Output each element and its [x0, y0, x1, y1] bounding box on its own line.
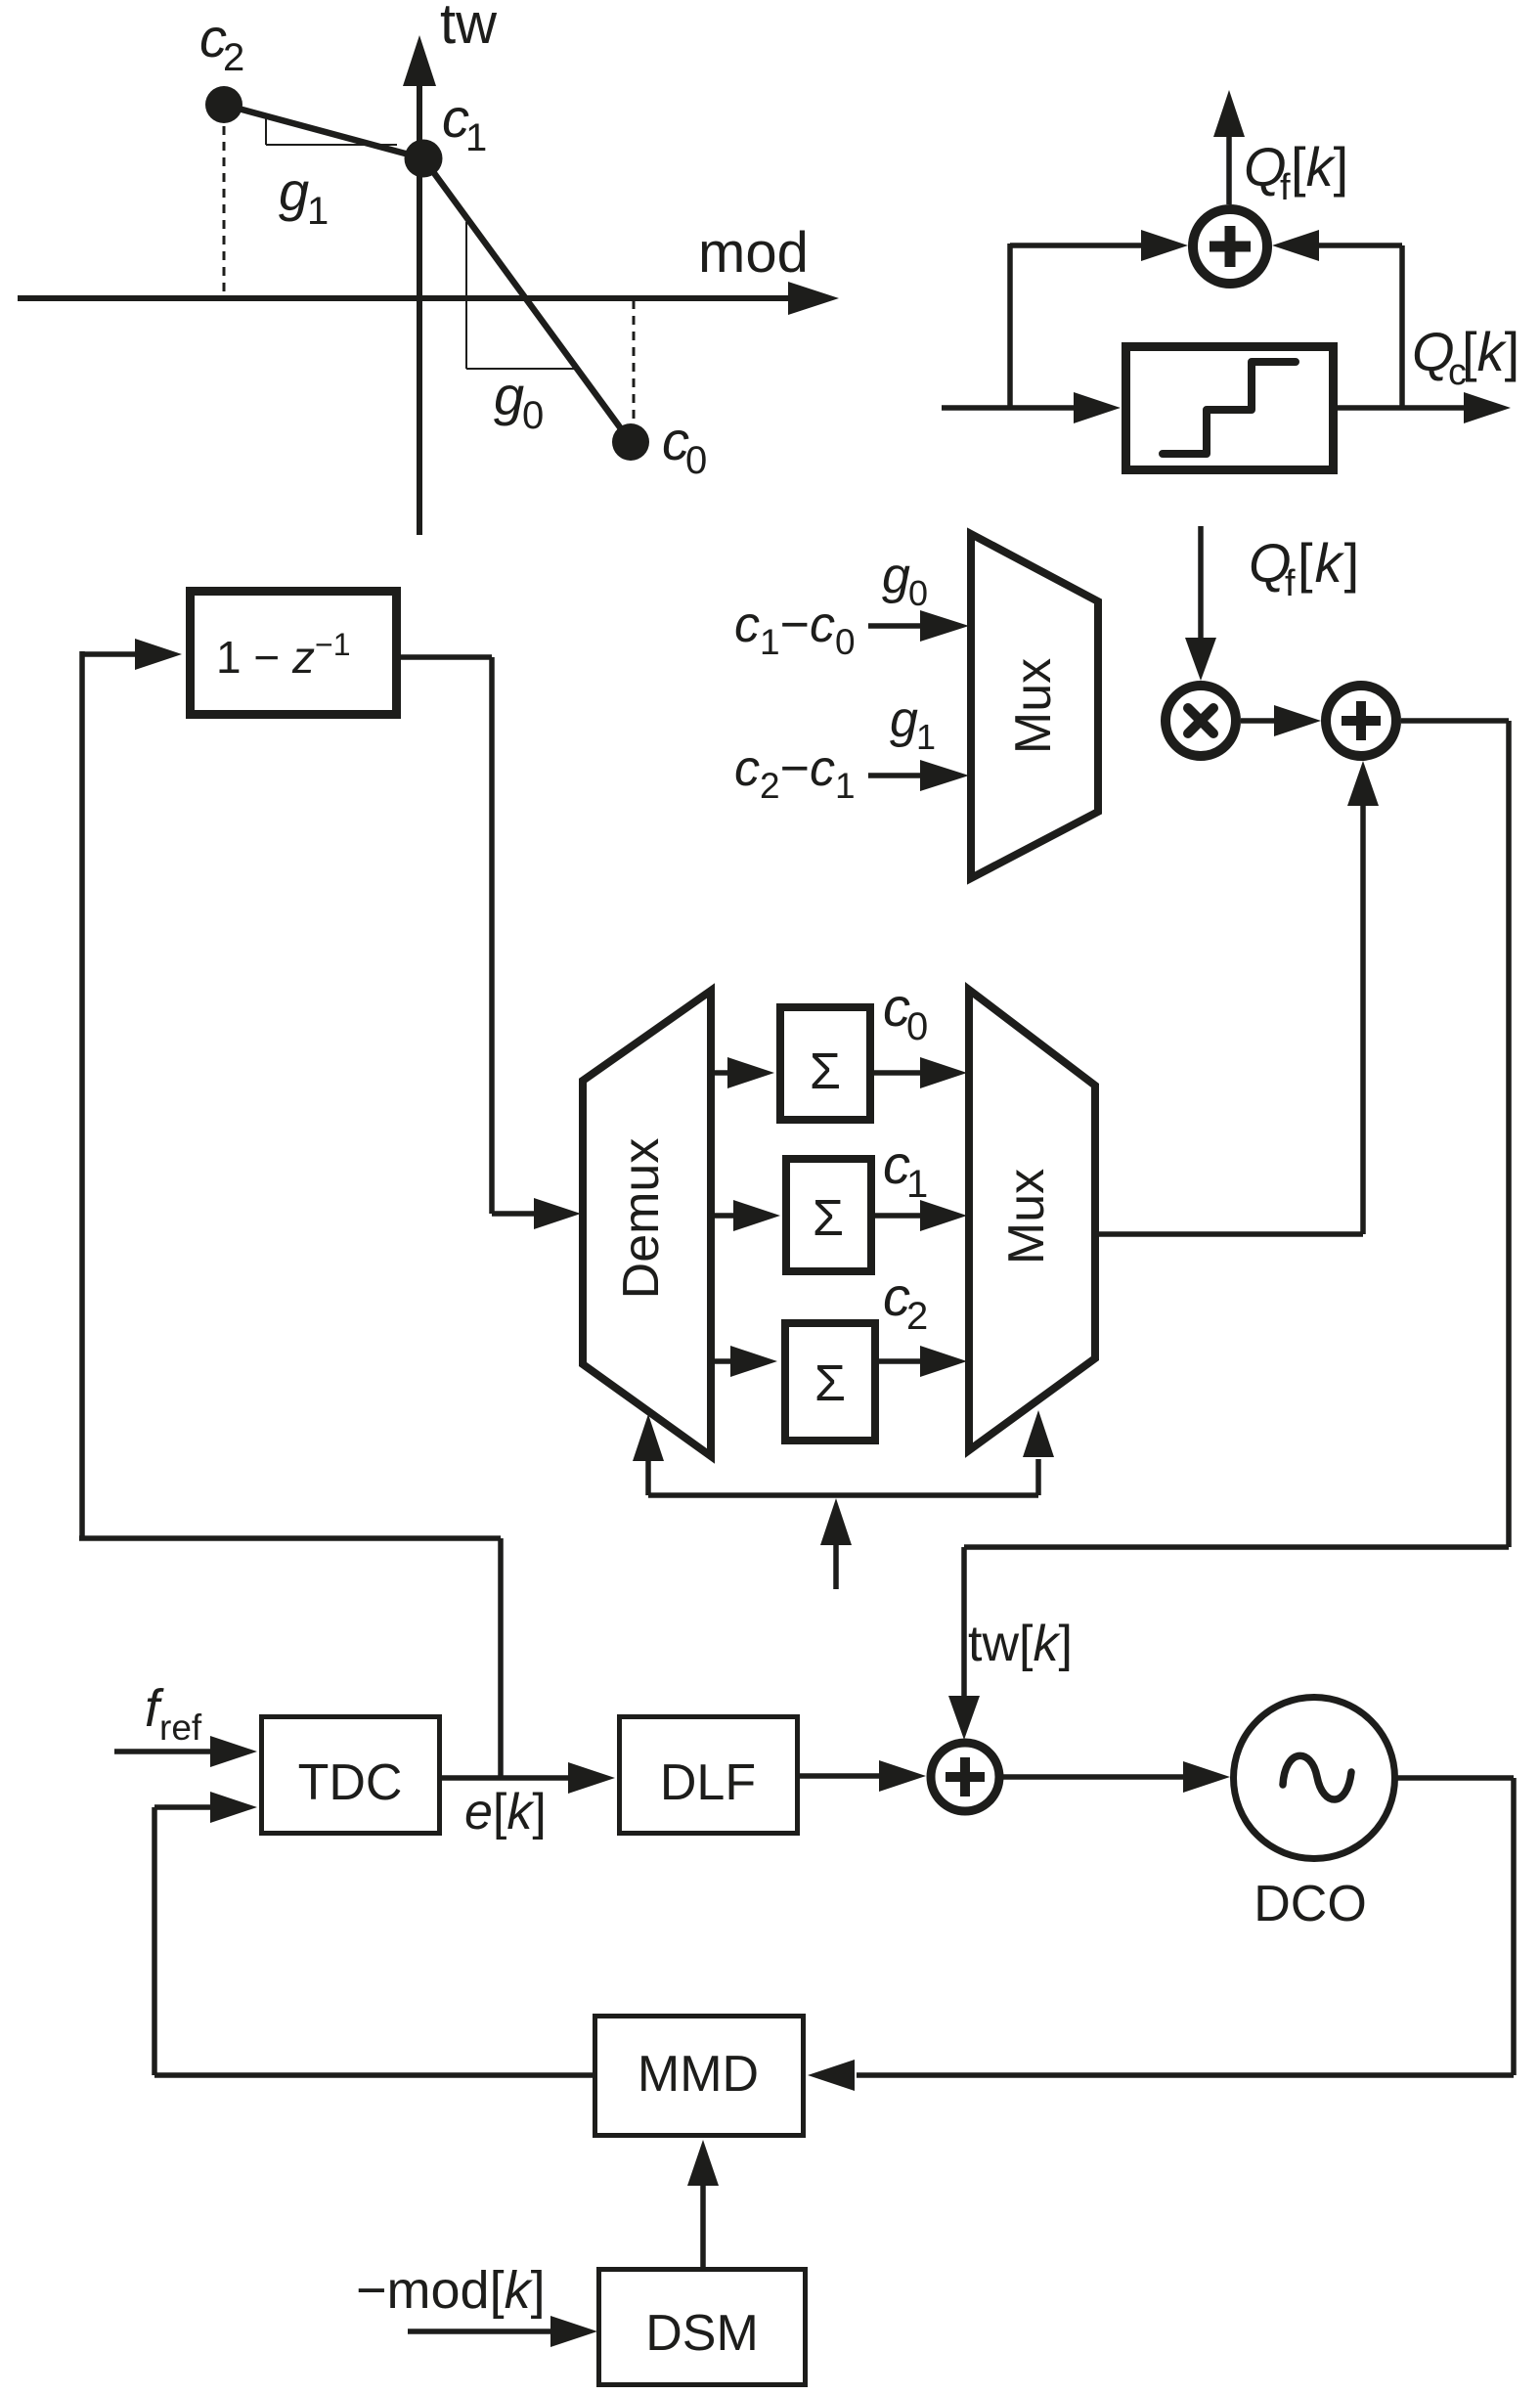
svg-text:g: g: [890, 691, 918, 748]
svg-text:e[k]: e[k]: [464, 1784, 547, 1841]
svg-text:Mux: Mux: [1005, 658, 1062, 754]
svg-text:0: 0: [685, 439, 707, 482]
svg-text:g: g: [494, 365, 524, 426]
svg-text:Demux: Demux: [613, 1138, 670, 1300]
svg-text:[k]: [k]: [1462, 321, 1519, 382]
svg-text:Σ: Σ: [814, 1355, 846, 1412]
svg-text:DSM: DSM: [645, 2305, 759, 2362]
svg-text:0: 0: [522, 394, 544, 437]
svg-text:TDC: TDC: [298, 1754, 403, 1811]
svg-text:mod: mod: [698, 221, 809, 285]
svg-text:Σ: Σ: [813, 1190, 844, 1247]
svg-text:1: 1: [465, 116, 487, 159]
svg-text:DLF: DLF: [660, 1754, 756, 1811]
svg-text:Mux: Mux: [998, 1169, 1055, 1264]
svg-text:DCO: DCO: [1254, 1876, 1367, 1932]
svg-text:1: 1: [906, 1163, 928, 1206]
svg-text:2: 2: [906, 1295, 928, 1338]
svg-text:1: 1: [916, 717, 936, 757]
svg-text:f: f: [1280, 167, 1291, 208]
svg-text:−mod[k]: −mod[k]: [356, 2261, 546, 2320]
svg-text:ref: ref: [159, 1708, 202, 1748]
svg-text:MMD: MMD: [638, 2046, 759, 2103]
svg-text:g: g: [279, 160, 309, 222]
svg-text:Σ: Σ: [810, 1043, 841, 1100]
svg-text:[k]: [k]: [1291, 136, 1348, 198]
svg-text:tw: tw: [440, 0, 498, 56]
svg-text:tw[k]: tw[k]: [968, 1616, 1073, 1672]
svg-text:0: 0: [908, 573, 928, 613]
svg-text:1: 1: [307, 190, 329, 233]
svg-text:[k]: [k]: [1298, 532, 1361, 594]
svg-text:0: 0: [906, 1005, 928, 1048]
svg-text:2: 2: [223, 36, 244, 79]
svg-text:f: f: [1285, 563, 1296, 604]
svg-text:g: g: [882, 548, 910, 604]
